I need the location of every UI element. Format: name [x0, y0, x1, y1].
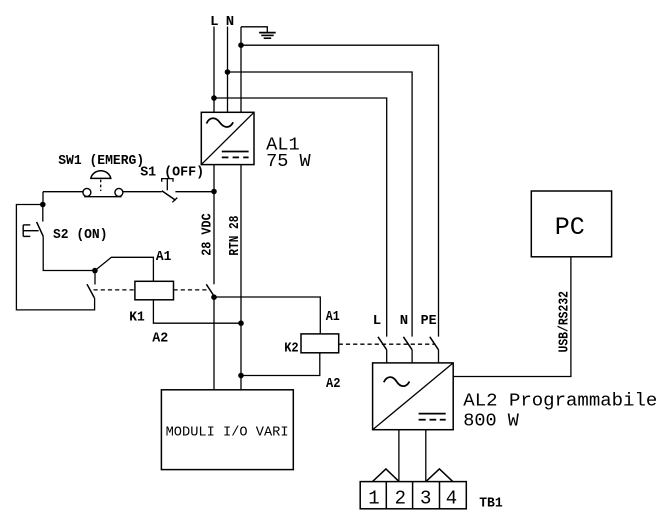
wire PE to AL2 input contact	[241, 45, 439, 336]
wire corner down from SW1 feed	[42, 192, 44, 205]
wire L to AL2 input contact	[214, 98, 387, 337]
svg-text:A2: A2	[152, 331, 168, 347]
label L (AL2 input)	[373, 313, 381, 329]
box MODULI I/O VARI	[161, 390, 293, 470]
label AL2 Programmabile	[463, 392, 657, 412]
wire 28VDC rail to MODULI	[213, 297, 215, 390]
pushbutton SW1 emergency mushroom head	[91, 171, 111, 191]
label terminal 3	[420, 487, 431, 509]
wire left feed to SW1	[43, 191, 83, 193]
svg-text:PC: PC	[555, 213, 585, 242]
svg-text:PE: PE	[421, 313, 437, 329]
svg-text:TB1: TB1	[479, 496, 503, 512]
node L branch	[211, 95, 217, 101]
net label L	[210, 14, 218, 30]
svg-text:A1: A1	[156, 249, 172, 265]
wire S1 to 28VDC node	[175, 191, 214, 193]
wire K1 coil A2 to RTN	[153, 300, 241, 323]
label A1 (K2)	[326, 309, 340, 325]
label 800 W	[463, 412, 519, 432]
label A1 (K1)	[156, 249, 172, 265]
contact K1 on 28VDC rail (NO)	[206, 284, 214, 296]
terminal block TB1	[360, 482, 466, 509]
contact K2 pole PE	[430, 337, 439, 363]
svg-text:RTN 28: RTN 28	[227, 216, 243, 256]
label PC	[555, 213, 585, 242]
svg-text:1: 1	[368, 487, 379, 509]
svg-text:MODULI I/O VARI: MODULI I/O VARI	[166, 425, 289, 441]
wire AL2 output - to TB1	[425, 430, 427, 482]
svg-text:A2: A2	[326, 376, 341, 392]
label TB1	[479, 496, 503, 512]
svg-text:AL2 Programmabile: AL2 Programmabile	[463, 392, 657, 412]
contact K2 pole N	[403, 337, 412, 363]
svg-text:75 W: 75 W	[266, 152, 311, 172]
svg-text:A1: A1	[326, 309, 340, 325]
contact K2 pole L	[378, 337, 387, 363]
wire RTN 28 rail	[240, 165, 242, 390]
wire USB/RS232 PC to AL2	[453, 257, 571, 377]
node N branch	[225, 69, 231, 75]
label S1 (OFF)	[140, 165, 204, 181]
svg-text:4: 4	[446, 487, 457, 509]
label terminal 1	[368, 487, 379, 509]
label N (AL2 input)	[400, 313, 408, 329]
power supply AL2 (AC/DC converter)	[373, 363, 454, 430]
label A2 (K2)	[326, 376, 341, 392]
wire S2 to A1 node	[43, 236, 95, 270]
label 75 W	[266, 152, 311, 172]
node A1 junction	[92, 268, 98, 274]
wire SW1 to S1	[123, 191, 162, 193]
svg-text:3: 3	[420, 487, 431, 509]
net label RTN 28	[227, 216, 243, 256]
svg-text:L: L	[373, 313, 381, 329]
svg-text:N: N	[400, 313, 408, 329]
label SW1 (EMERG)	[58, 153, 144, 169]
relay coil K2	[301, 334, 339, 353]
wire 28 VDC rail (AL1 out to contact K1)	[213, 165, 215, 285]
wire N to AL2 input contact	[228, 72, 413, 337]
wire K1 latch top terminal	[94, 271, 96, 285]
label AL1	[266, 136, 300, 156]
wire N neutral down to AL1	[227, 27, 229, 113]
net label USB/RS232	[556, 291, 572, 353]
power supply AL1 (AC/DC converter)	[201, 112, 254, 164]
ground	[241, 27, 276, 38]
wire AL2 output + to TB1	[398, 430, 400, 482]
svg-text:K2: K2	[284, 341, 299, 357]
svg-text:K1: K1	[129, 309, 145, 325]
label terminal 2	[395, 487, 406, 509]
svg-text:28 VDC: 28 VDC	[200, 213, 216, 256]
wire L phase down to AL1	[213, 27, 215, 113]
node PE branch	[238, 42, 244, 48]
label S2 (ON)	[53, 227, 108, 243]
wire to K2 coil A1	[214, 297, 320, 334]
mechanical link K1 (dashed)	[94, 289, 208, 291]
label A2 (K1)	[152, 331, 168, 347]
label PE (AL2 input)	[421, 313, 437, 329]
wire to K1 coil A1	[95, 257, 153, 281]
wire latch loop (left)	[16, 205, 94, 310]
contact K1 latching (NO)	[87, 284, 94, 298]
wire PE down to AL1	[240, 27, 242, 113]
relay coil K1	[135, 281, 174, 300]
PC box	[531, 191, 611, 257]
label MODULI I/O VARI	[166, 425, 289, 441]
svg-text:USB/RS232: USB/RS232	[556, 291, 572, 353]
pushbutton S1 (OFF) normally-closed	[162, 179, 178, 203]
svg-text:800 W: 800 W	[463, 412, 519, 432]
node K2 A2 on RTN	[238, 373, 244, 379]
node K2 A1 branch	[211, 294, 217, 300]
wire K2 coil A2 to RTN	[241, 353, 320, 376]
pushbutton S2 (ON) normally-open	[23, 205, 43, 237]
svg-text:SW1 (EMERG): SW1 (EMERG)	[58, 153, 144, 169]
net label N	[226, 14, 234, 30]
mechanical link K2 (dashed)	[339, 343, 436, 345]
node S1 connection	[211, 189, 217, 195]
node K1 A2 on RTN	[238, 320, 244, 326]
label terminal 4	[446, 487, 457, 509]
svg-text:S2 (ON): S2 (ON)	[53, 227, 108, 243]
label K2	[284, 341, 299, 357]
node S2 branch	[40, 202, 46, 208]
pushbutton SW1 contacts	[83, 188, 123, 196]
label K1	[129, 309, 145, 325]
terminal chevron 1-2	[373, 469, 400, 482]
terminal chevron 3-4	[426, 469, 453, 482]
svg-text:2: 2	[395, 487, 406, 509]
net label 28 VDC	[200, 213, 216, 256]
